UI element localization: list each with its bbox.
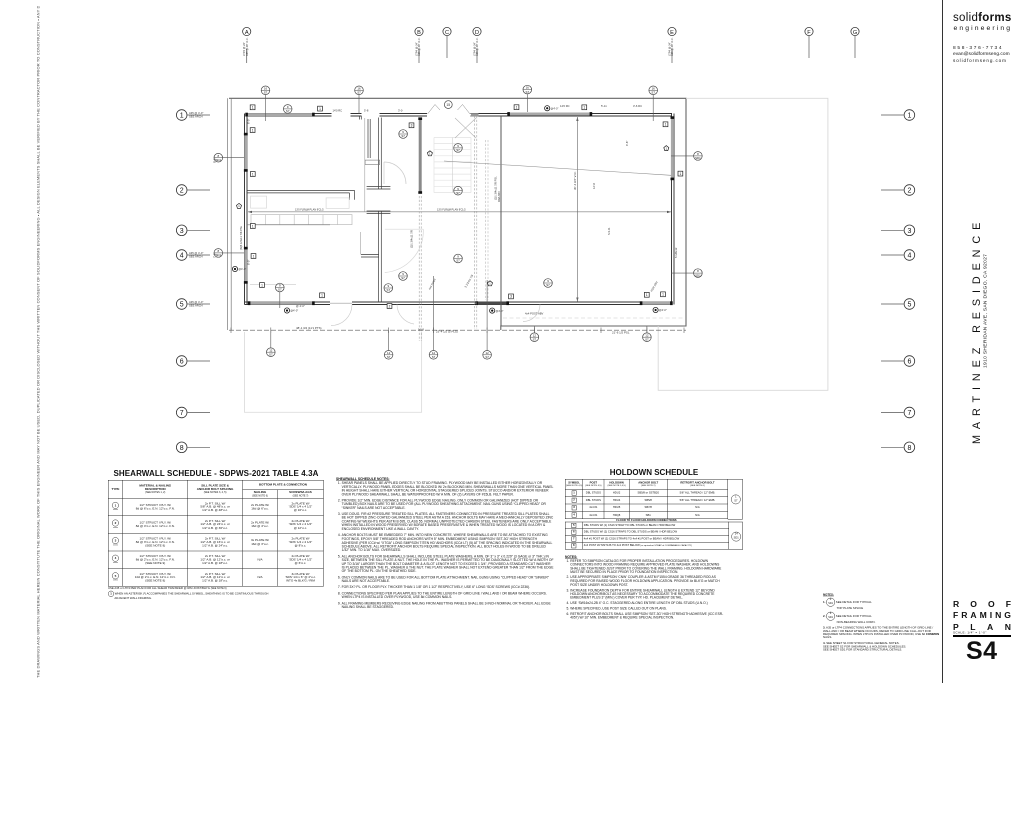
shear wall bar left-lower (244, 248, 247, 283)
sheet number S4 (966, 637, 998, 666)
svg-text:LTP4 @ 24": LTP4 @ 24" (472, 42, 476, 56)
callout at wall (694, 269, 703, 278)
shearwall type square [1] (318, 106, 323, 111)
shearwall type square [3] (409, 123, 414, 128)
porch dashed line (503, 317, 684, 319)
svg-text:G: G (853, 30, 857, 36)
svg-text:S7: S7 (456, 259, 460, 263)
svg-text:7: 7 (180, 410, 184, 417)
grid bubble 3 left (176, 225, 187, 236)
svg-text:SD1: SD1 (695, 273, 701, 277)
svg-text:1: 1 (516, 106, 518, 110)
grid bubble C (443, 27, 451, 35)
entry door opening + swings (428, 105, 471, 115)
svg-text:8: 8 (907, 445, 911, 452)
holdown pentagon (488, 281, 493, 286)
shearwall type square [1] (644, 292, 649, 297)
bedroom door arc (384, 162, 406, 184)
grid bubble A (243, 27, 251, 35)
grid line B (418, 49, 420, 63)
interior wall under cabinets (247, 224, 330, 226)
svg-text:14'0 RC: 14'0 RC (333, 109, 343, 113)
svg-text:4x4 POST ABV: 4x4 POST ABV (525, 312, 544, 316)
svg-text:@4'-0": @4'-0" (659, 308, 667, 312)
svg-text:S7: S7 (526, 90, 530, 94)
svg-text:@4'-0": @4'-0" (496, 309, 504, 313)
roof outline right (light) (658, 98, 828, 390)
svg-text:(2)1 3/4x11 7/8 PSL: (2)1 3/4x11 7/8 PSL (494, 176, 498, 200)
grid bubble 8 left (176, 442, 187, 453)
svg-text:2: 2 (180, 188, 184, 195)
grid bubble 7 right (904, 407, 915, 418)
svg-text:S7: S7 (651, 91, 655, 95)
shearwall type square [1] (250, 105, 255, 110)
callout at wall (214, 249, 223, 258)
contact info (953, 46, 1003, 51)
svg-text:3'-0: 3'-0 (398, 109, 403, 113)
svg-text:15: 15 (446, 103, 450, 107)
roof outline lower-left (light) (245, 332, 422, 412)
bottom wall double line (245, 302, 673, 305)
grid line C (446, 36, 448, 58)
grid line F (808, 36, 810, 58)
shearwall type square [1] (678, 171, 683, 176)
callout below plan (530, 333, 539, 342)
svg-text:13'0 FLR&M PLAN 9'CLG: 13'0 FLR&M PLAN 9'CLG (437, 209, 466, 212)
svg-text:LTP4 @ 24": LTP4 @ 24" (242, 42, 246, 56)
callout above plan (355, 86, 364, 95)
svg-text:1: 1 (907, 113, 911, 120)
holdown schedule table (565, 479, 1015, 580)
svg-text:1: 1 (665, 123, 667, 127)
callout interior (454, 254, 463, 263)
grid bubble 3 right (904, 225, 915, 236)
grid bubble F (805, 27, 813, 35)
svg-text:S7: S7 (533, 337, 537, 341)
svg-text:S7: S7 (401, 276, 405, 280)
anchor symbol (232, 266, 237, 271)
grid line A (246, 49, 248, 63)
project name vertical (971, 217, 983, 444)
strap line dashed pair 3 (486, 140, 488, 300)
grid bubble E (668, 27, 676, 35)
svg-text:SEE ARCH: SEE ARCH (189, 114, 203, 118)
svg-text:1: 1 (662, 293, 664, 297)
svg-text:S7: S7 (278, 288, 282, 292)
svg-text:9'-6: 9'-6 (213, 158, 217, 163)
grid bubble D (473, 27, 481, 35)
logo solidforms (953, 12, 1012, 24)
callout leader (279, 292, 281, 308)
svg-text:S7: S7 (264, 91, 268, 95)
svg-text:S7: S7 (357, 91, 361, 95)
shear wall bar left-upper (244, 134, 247, 171)
svg-text:S7: S7 (269, 352, 273, 356)
grid line D (476, 49, 478, 63)
svg-text:E: E (670, 30, 674, 36)
svg-text:S7: S7 (546, 283, 550, 287)
callout interior (454, 186, 463, 195)
svg-text:8: 8 (180, 445, 184, 452)
shear wall bar right wall (671, 118, 674, 180)
svg-text:@4'-0": @4'-0" (551, 106, 559, 110)
svg-text:S7: S7 (645, 337, 649, 341)
svg-text:3: 3 (907, 228, 911, 235)
callout above plan (261, 86, 270, 95)
bedroom door wall (368, 119, 370, 158)
callout interior (454, 144, 463, 153)
svg-text:S7: S7 (456, 191, 460, 195)
callout above plan (649, 86, 658, 95)
stair center rail (452, 138, 454, 193)
svg-text:SEE ARCH: SEE ARCH (189, 254, 203, 258)
svg-text:S7: S7 (286, 109, 290, 113)
svg-text:1: 1 (321, 294, 323, 298)
shearwall type square [1] (251, 254, 256, 259)
callout interior (544, 279, 553, 288)
grid bubble 5 right (904, 299, 915, 310)
svg-text:7'-0: 7'-0 (213, 253, 217, 258)
grid bubble 1 right (904, 110, 915, 121)
svg-text:C: C (445, 30, 449, 36)
svg-text:23'-4 1/2 (5 PLS): 23'-4 1/2 (5 PLS) (436, 330, 458, 334)
svg-text:1: 1 (252, 106, 254, 110)
great room vertical dimension (576, 117, 578, 302)
callout below plan (384, 351, 393, 360)
svg-text:5'-11: 5'-11 (601, 104, 607, 108)
anchor symbol (545, 106, 550, 111)
strap line dashed pair 2 (474, 116, 477, 329)
svg-text:1: 1 (319, 107, 321, 111)
grid bubble 1 left (176, 110, 187, 121)
closet side line (360, 232, 362, 255)
svg-text:5: 5 (180, 302, 184, 309)
svg-text:S7: S7 (432, 355, 436, 359)
grid bubble 4 left (176, 250, 187, 261)
svg-text:SEE ARCH: SEE ARCH (189, 303, 203, 307)
svg-text:16'-8: 16'-8 (418, 328, 424, 332)
patio door arc (331, 305, 414, 326)
svg-text:2: 2 (389, 304, 391, 308)
svg-text:@4'-0": @4'-0" (238, 267, 246, 271)
svg-text:1: 1 (646, 293, 648, 297)
interior shear bar (dark) (419, 119, 422, 193)
svg-text:1: 1 (252, 172, 254, 176)
svg-text:@ 4'-0": @ 4'-0" (296, 304, 305, 308)
holdown pentagon (237, 203, 242, 208)
grid bubble 6 left (176, 356, 187, 367)
top wall double line (246, 114, 672, 117)
shear wall bar top-right (509, 113, 592, 116)
svg-text:S.S.D.: S.S.D. (607, 227, 611, 235)
svg-text:1: 1 (180, 113, 184, 120)
shearwall type square [1] (250, 128, 255, 133)
door callout circle (444, 101, 452, 109)
svg-text:5'-8: 5'-8 (364, 109, 369, 113)
svg-text:A: A (245, 30, 249, 36)
title block divider line (942, 0, 943, 683)
holdown notes (565, 555, 963, 721)
svg-text:3: 3 (411, 124, 413, 128)
holdown pentagon (664, 146, 669, 151)
svg-text:3: 3 (180, 228, 184, 235)
closet wall line x365 (364, 118, 366, 212)
floor to floor holdown connections table (565, 519, 1015, 596)
svg-text:5 1/8x12: 5 1/8x12 (674, 247, 678, 258)
shearwall type square [1] (663, 122, 668, 127)
outer roof/lower-floor outline (229, 98, 686, 330)
svg-text:3'-6 RC: 3'-6 RC (633, 104, 642, 108)
shearwall type square [1] (260, 283, 265, 288)
svg-text:1: 1 (252, 128, 254, 132)
svg-text:D: D (475, 30, 479, 36)
center T-wall upper (367, 118, 391, 190)
shearwall type square [1] (661, 292, 666, 297)
closet shelf line (250, 284, 296, 286)
sheet title ROOF FRAMING PLAN (953, 599, 1011, 633)
grid bubble B (415, 27, 423, 35)
door arc lower (523, 305, 540, 322)
svg-text:S7: S7 (387, 288, 391, 292)
shearwall schedule notes (336, 477, 881, 813)
grid bubble 6 right (904, 356, 915, 367)
svg-text:6: 6 (907, 359, 911, 366)
svg-text:12'-8: 12'-8 (592, 183, 596, 189)
shear wall bar bottom-left (249, 302, 314, 305)
svg-text:3 1/2x11 7/8: 3 1/2x11 7/8 (463, 273, 474, 288)
svg-text:4: 4 (907, 253, 911, 260)
svg-text:(2)1 3/4x11 7/8: (2)1 3/4x11 7/8 (409, 230, 413, 248)
dimension line mid-plan (248, 211, 671, 213)
svg-text:S7: S7 (387, 355, 391, 359)
svg-text:S7: S7 (456, 148, 460, 152)
svg-text:HDR ABV: HDR ABV (649, 280, 658, 292)
door jamb box (365, 160, 380, 164)
svg-text:8'-0": 8'-0" (247, 260, 251, 265)
svg-text:B: B (417, 30, 421, 36)
left outer wall double line (226, 98, 228, 330)
open-to-below X (455, 118, 476, 138)
shear wall bar stub at entry (471, 113, 479, 116)
anchor symbol (653, 307, 658, 312)
svg-text:5: 5 (907, 302, 911, 309)
anchor symbol (284, 308, 289, 313)
callout interior (276, 283, 285, 292)
closet wall pair (361, 255, 379, 258)
shearwall type square [1] (250, 172, 255, 177)
svg-text:1: 1 (583, 106, 585, 110)
svg-text:6: 6 (180, 359, 184, 366)
svg-text:SD1: SD1 (695, 156, 701, 160)
anchor symbol (490, 308, 495, 313)
shearwall type square [1] (250, 224, 255, 229)
grid bubble 2 left (176, 185, 187, 196)
strap line dashed pair 1 (419, 196, 421, 341)
svg-text:48'-1 3/4 (11'1 PTS): 48'-1 3/4 (11'1 PTS) (296, 326, 322, 330)
svg-text:LTP4 @ 24": LTP4 @ 24" (667, 42, 671, 56)
right wall double line (671, 114, 673, 305)
shear wall bar bottom-right (641, 302, 672, 305)
wall stub near B (360, 116, 362, 120)
svg-text:1: 1 (680, 172, 682, 176)
svg-text:14'0 RC: 14'0 RC (560, 104, 570, 108)
shearwall schedule title (108, 469, 324, 478)
grid bubble 2 right (904, 185, 915, 196)
grid bubble 7 left (176, 407, 187, 418)
svg-text:LTP4 @ 24": LTP4 @ 24" (414, 42, 418, 56)
svg-text:4x4 POST: 4x4 POST (427, 277, 437, 290)
svg-text:S7: S7 (401, 134, 405, 138)
svg-text:4: 4 (180, 253, 184, 260)
svg-text:13'0 FLR&M PLAN 9'CLG: 13'0 FLR&M PLAN 9'CLG (295, 209, 324, 212)
bearing wall x=501 (500, 116, 502, 326)
holdown schedule title (572, 468, 736, 477)
callout below plan (643, 333, 652, 342)
grid bubble 8 right (904, 442, 915, 453)
shearwall type square [3] (509, 294, 514, 299)
shearwall type square [1] (514, 105, 519, 110)
corner notes (823, 593, 1024, 739)
svg-text:RIM ABV: RIM ABV (497, 191, 501, 202)
left wall double line (244, 114, 246, 305)
svg-text:1: 1 (253, 254, 255, 258)
shearwall schedule table (108, 480, 647, 779)
callout below plan (429, 351, 438, 360)
callout interior (399, 130, 408, 139)
callout interior (283, 105, 292, 114)
shear wall bar bottom-mid (dark) (477, 302, 508, 305)
callout below plan (267, 348, 276, 357)
bottom dimension string (229, 329, 686, 331)
svg-text:(N)5 1/4x11 7/8 PSL: (N)5 1/4x11 7/8 PSL (239, 225, 243, 250)
center T-wall lower (367, 211, 391, 302)
grid line G (854, 36, 856, 58)
callout above plan (523, 85, 532, 94)
grid bubble 5 left (176, 299, 187, 310)
shearwall type square [1] (320, 293, 325, 298)
svg-text:1: 1 (252, 224, 254, 228)
shear wall bar top-left (247, 113, 314, 116)
callout interior (384, 284, 393, 293)
stairwell treads (434, 138, 471, 193)
callout at wall (694, 152, 703, 161)
svg-text:6'-0": 6'-0" (247, 119, 251, 124)
svg-text:2: 2 (907, 188, 911, 195)
grid bubble G (851, 27, 859, 35)
callout at wall (214, 153, 223, 162)
callout below plan (483, 351, 492, 360)
leader diagonal (444, 161, 671, 175)
svg-text:4'-6": 4'-6" (625, 141, 629, 146)
svg-text:7: 7 (907, 410, 911, 417)
door arc living (385, 229, 424, 272)
interior wall: hallway upper (247, 190, 355, 199)
svg-text:1: 1 (261, 283, 263, 287)
grid line E (671, 49, 673, 63)
callout interior (399, 272, 408, 281)
svg-text:S7: S7 (485, 355, 489, 359)
svg-text:@4'-0": @4'-0" (290, 309, 298, 313)
svg-text:F: F (807, 30, 811, 36)
shearwall type square [2] (387, 304, 392, 309)
svg-text:3: 3 (510, 295, 512, 299)
pantry light boxes (251, 196, 267, 208)
shearwall type square [1] (582, 105, 587, 110)
kitchen cabinets (251, 215, 352, 225)
scale note (953, 631, 1011, 640)
grid bubble 4 right (904, 250, 915, 261)
svg-text:30'-4 3/4" V.I.F.: 30'-4 3/4" V.I.F. (573, 171, 577, 190)
holdown pentagon (427, 151, 432, 156)
project address vertical (976, 184, 994, 368)
left edge disclaimer (rotated) (36, 6, 45, 678)
svg-text:21'-6 1/2 PSL: 21'-6 1/2 PSL (612, 331, 630, 335)
